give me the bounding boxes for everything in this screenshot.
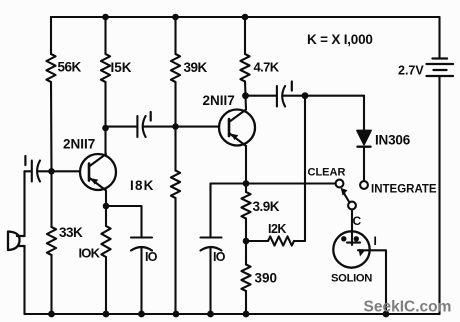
- resistor R5 18K: [174, 127, 176, 171]
- svg-text:SeekIC.com: SeekIC.com: [364, 299, 452, 316]
- svg-text:I5K: I5K: [111, 60, 132, 75]
- Q2 emitter arrow: [231, 134, 238, 140]
- svg-text:IN306: IN306: [375, 133, 411, 148]
- svg-text:IO: IO: [145, 250, 158, 264]
- wire 15K to Q1 collector: [104, 128, 106, 154]
- wire input cap to earphone: [23, 171, 25, 236]
- wire output node to diode branch: [305, 95, 364, 97]
- svg-text:4.7K: 4.7K: [254, 60, 280, 75]
- terminal CLEAR contact: [336, 180, 344, 188]
- diode D1 1N306: [357, 131, 371, 145]
- svg-text:I: I: [374, 234, 377, 248]
- resistor R7 10K: [105, 206, 107, 226]
- svg-text:33K: 33K: [59, 225, 83, 240]
- resistor R2 33K: [50, 171, 52, 227]
- battery B1 2.7V plates: [427, 59, 454, 77]
- wire top supply rail: [51, 16, 440, 18]
- wire switch pole to solion: [351, 209, 353, 231]
- svg-text:CLEAR: CLEAR: [308, 167, 346, 179]
- capacitor C4 1: [276, 86, 278, 107]
- solion U1: [333, 231, 369, 267]
- solion I electrode flag: [359, 249, 366, 257]
- wire Q2 emitter node to CLEAR: [246, 182, 335, 184]
- resistor R6 4.7K: [244, 17, 246, 54]
- svg-text:39K: 39K: [184, 60, 208, 75]
- wire feedback column: [304, 96, 306, 241]
- Q1 emitter arrow: [91, 178, 98, 184]
- wire Q2 base: [176, 126, 220, 128]
- value 1 tick C3: [150, 112, 152, 121]
- wire right edge battery to bottom rail: [438, 76, 440, 314]
- capacitor C1 input 1: [25, 170, 32, 172]
- svg-text:C: C: [353, 214, 362, 228]
- wire emitter node down to cap C5: [211, 182, 247, 184]
- wire diode cathode to INTEGRATE: [363, 147, 365, 181]
- transistor Q1 2N117: [80, 154, 116, 190]
- svg-text:390: 390: [255, 271, 278, 286]
- wire bottom ground rail: [25, 313, 440, 315]
- terminal INTEGRATE contact: [360, 181, 368, 189]
- svg-text:I2K: I2K: [268, 222, 286, 236]
- svg-text:56K: 56K: [58, 60, 82, 75]
- wire right edge battery branch top: [438, 17, 440, 58]
- resistor R3 15K: [104, 17, 106, 54]
- svg-text:2.7V: 2.7V: [398, 64, 424, 78]
- resistor R4 39K: [174, 17, 176, 54]
- svg-text:INTEGRATE: INTEGRATE: [371, 184, 437, 196]
- value 1 tick C4: [291, 82, 293, 91]
- resistor R9 12K: [246, 240, 268, 242]
- resistor R8 3.9K: [245, 184, 247, 193]
- earphone input transducer: [8, 232, 25, 251]
- svg-text:I8K: I8K: [130, 178, 155, 193]
- svg-text:2NII7: 2NII7: [203, 93, 235, 108]
- wire Q2 collector: [244, 96, 247, 110]
- svg-text:IO: IO: [213, 250, 226, 264]
- wire Q1 base: [52, 170, 81, 172]
- capacitor C5 10: [201, 236, 222, 238]
- wire Q2 emitter: [245, 146, 247, 184]
- svg-text:SOLION: SOLION: [331, 273, 372, 285]
- wire diode anode: [363, 96, 365, 131]
- resistor R1 56K: [50, 17, 52, 54]
- svg-text:2NII7: 2NII7: [63, 137, 95, 152]
- wire collector node to output cap C4: [246, 95, 277, 97]
- wire 15K node to coupling cap C3: [106, 126, 138, 128]
- resistor R10 390: [245, 241, 247, 265]
- value 1 tick C1: [24, 156, 26, 165]
- wire emitter to bypass cap C2: [106, 206, 142, 237]
- wire solion output: [358, 250, 386, 314]
- wire Q1 emitter: [105, 191, 107, 207]
- svg-text:K = X I,000: K = X I,000: [307, 32, 373, 47]
- transistor Q2 2N117: [219, 110, 255, 146]
- capacitor C2 10: [131, 236, 152, 238]
- svg-text:3.9K: 3.9K: [253, 199, 280, 214]
- svg-text:IOK: IOK: [79, 246, 101, 261]
- switch S1 arm: [348, 202, 356, 210]
- wire earphone to ground rail: [23, 246, 25, 314]
- capacitor C3 1: [136, 116, 138, 137]
